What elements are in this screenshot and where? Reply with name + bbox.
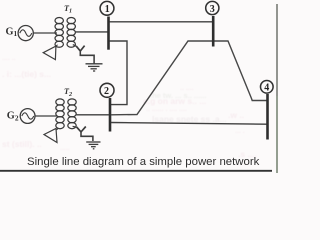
svg-text:.....: ..... [60,145,70,152]
svg-text:... .: ... . [235,128,245,135]
svg-text:3: 3 [210,4,215,15]
svg-text:. i: ...(tie) s...: . i: ...(tie) s... [2,69,51,79]
svg-text:.. ...... . .... ....: .. ...... . .... .... [146,106,187,113]
svg-text:2: 2 [104,86,109,97]
svg-text:.w ..: .w .. [228,110,244,120]
svg-text:st (still). ..: st (still). .. [2,139,42,149]
svg-text:4: 4 [264,82,269,93]
svg-text:Single line diagram of a simpl: Single line diagram of a simple power ne… [27,156,260,168]
svg-text:.he tw. ... s.. ......: .he tw. ... s.. ...... [150,91,206,100]
svg-text:1: 1 [105,4,110,15]
svg-text:.... ..: .... .. [2,55,16,62]
